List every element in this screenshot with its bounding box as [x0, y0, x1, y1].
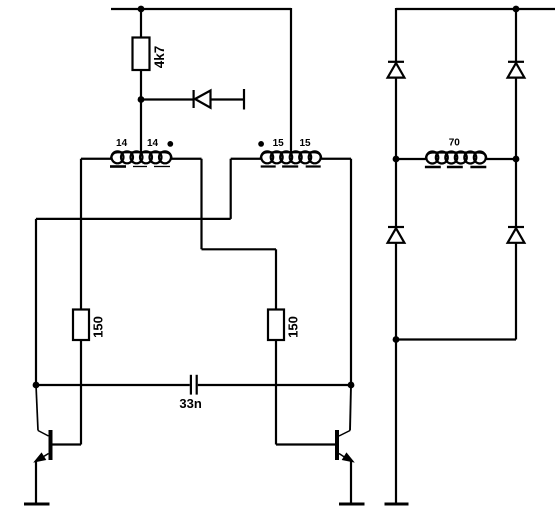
svg-text:14: 14 [116, 138, 128, 149]
svg-text:15: 15 [273, 138, 285, 149]
wire R1 bottom to transformer T1 center tap [140, 70, 142, 153]
wire T1 right terminal [172, 158, 202, 160]
wire mid rail left of L1 [396, 158, 426, 160]
inductor L1 70 [426, 152, 487, 164]
wire R3 bottom to Q1 base [80, 340, 82, 445]
svg-text:15: 15 [299, 138, 311, 149]
wire cross-couple A vertical from T2 left [230, 159, 232, 219]
diode D5 [508, 227, 525, 243]
wire R2 bottom to Q2 base [275, 340, 277, 445]
wire left leg lower segment to ground [395, 243, 397, 503]
T2 core dash 2 [282, 165, 298, 167]
node dot lower rail [393, 336, 400, 343]
node dot mid rail left [393, 156, 400, 163]
transistor Q1 [35, 385, 53, 503]
svg-text:150: 150 [91, 316, 106, 338]
transistor Q2 [335, 385, 354, 503]
wire B down to R2 top [275, 249, 277, 309]
wire diode D1 to terminal [211, 98, 244, 100]
wire from top rail down to R1 [140, 9, 142, 38]
wire mid rail right of L1 [486, 158, 516, 160]
wire lower rail right circuit [396, 338, 516, 340]
wire cross-couple A horizontal [36, 218, 231, 220]
wire left leg upper segment [395, 8, 397, 62]
svg-text:33n: 33n [179, 396, 201, 411]
svg-text:70: 70 [449, 138, 461, 149]
diode D4 [388, 227, 405, 243]
wire T1 left down to R3 top [80, 159, 82, 310]
T2 phase dot [258, 141, 264, 147]
node dot mid rail right [513, 156, 520, 163]
capacitor C1 33n [191, 375, 197, 395]
wire left leg mid segment [395, 78, 397, 227]
ground Q2 [339, 503, 365, 506]
terminal bar [243, 89, 245, 110]
node Q2 collector dot [348, 382, 355, 389]
wire Q1 base [53, 443, 82, 445]
resistor R3 150 left [73, 310, 89, 341]
svg-text:14: 14 [147, 138, 159, 149]
T1 phase dot [167, 141, 173, 147]
T1 core dash 2 [133, 166, 147, 168]
T1 core dash 3 [154, 166, 170, 168]
L1 core dash 3 [470, 166, 486, 169]
wire right leg lower segment [515, 243, 517, 340]
wire right leg upper segment [515, 8, 517, 62]
wire Q2 base [276, 443, 335, 445]
wire tap to diode D1 [141, 98, 193, 100]
wire bottom rail left of C1 [36, 384, 190, 386]
node Q1 collector dot [33, 382, 40, 389]
wire right leg mid segment [515, 78, 517, 227]
T2 core dash 3 [306, 165, 321, 167]
wire T2 left terminal [231, 158, 261, 160]
wire T2 right terminal down to Q2 collector [350, 159, 352, 385]
transformer T2 winding 15-15 [261, 151, 322, 163]
transformer T1 winding 14-14 [111, 151, 172, 163]
T1 core dash 1 [110, 165, 126, 168]
wire bottom rail right of C1 [198, 384, 351, 386]
wire top rail corner down to T2 center tap [290, 8, 292, 153]
svg-text:4k7: 4k7 [152, 46, 167, 69]
wire top rail left circuit [111, 8, 291, 10]
svg-text:150: 150 [286, 316, 301, 338]
resistor 4k7 [133, 38, 150, 71]
node dot top rail right [513, 6, 520, 13]
ground Q1 [24, 503, 50, 506]
diode D1 horizontal [194, 90, 211, 108]
diode D2 [388, 62, 405, 78]
wire cross-couple B vertical from T1 right [200, 159, 202, 250]
wire cross-couple A down to Q1 collector node [35, 219, 37, 385]
node junction dot diode tap [138, 96, 145, 103]
L1 core dash 2 [447, 166, 463, 169]
node junction dot top rail [138, 6, 145, 13]
wire cross-couple B horizontal [202, 248, 277, 250]
T2 core dash 1 [261, 165, 276, 167]
L1 core dash 1 [425, 166, 441, 169]
wire T2 right terminal [321, 158, 351, 160]
ground right circuit [385, 503, 409, 506]
wire top rail right circuit [396, 8, 555, 10]
wire T1 left terminal [81, 158, 111, 160]
resistor R2 150 right [268, 310, 284, 341]
diode D3 [508, 62, 525, 78]
